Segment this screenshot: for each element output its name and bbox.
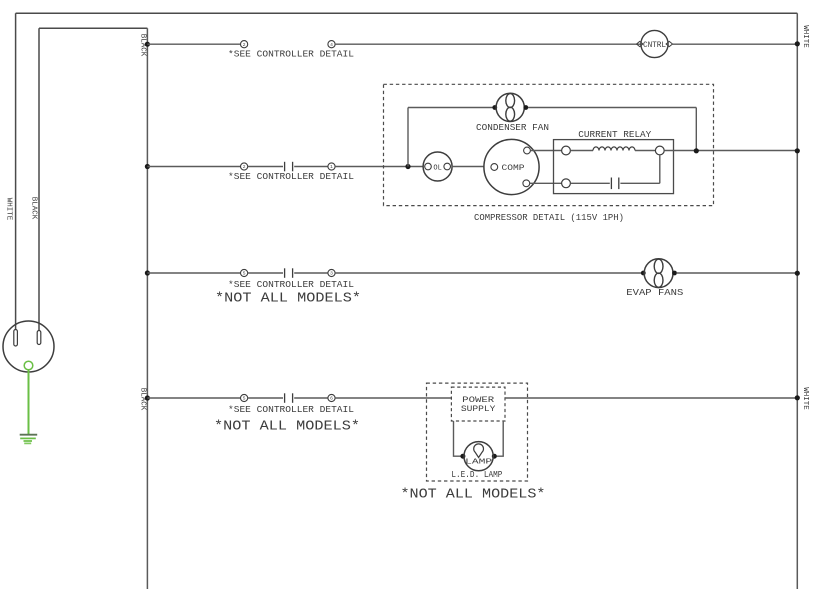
svg-text:CNTRL: CNTRL: [643, 42, 666, 50]
wire COMP S to relay: [530, 150, 561, 152]
terminal circle row2 left: [241, 163, 248, 170]
node evap fan left terminal: [641, 271, 646, 276]
wire row4 a: [147, 397, 240, 399]
relay terminal top-left: [562, 146, 571, 155]
power supply dashed box: [451, 387, 505, 421]
svg-text:CONDENSER FAN: CONDENSER FAN: [476, 123, 549, 133]
terminal circle 4 row1: [328, 41, 335, 48]
led section outer dashed box: [427, 383, 528, 481]
terminal circle row3 right: [328, 269, 335, 276]
wire lamp loop right: [493, 421, 503, 456]
wire row4 d: [335, 397, 451, 399]
svg-text:WHITE: WHITE: [801, 25, 809, 48]
plug P1 body: [3, 321, 54, 372]
plug ground pin circle: [24, 361, 33, 370]
wire row4 c: [294, 397, 328, 399]
svg-text:5: 5: [243, 396, 246, 402]
wire row2 b: [248, 166, 283, 168]
node row1 left bus junction: [145, 42, 150, 47]
terminal circle row4 left: [241, 394, 248, 401]
inductor relay coil: [593, 147, 635, 151]
wire relay out to bus: [664, 150, 797, 152]
wire row3 a: [147, 272, 240, 274]
node row3 right bus junction: [795, 271, 800, 276]
svg-text:COMPRESSOR DETAIL (115V 1PH): COMPRESSOR DETAIL (115V 1PH): [474, 213, 624, 223]
wire white left vertical (plug neutral up): [15, 13, 17, 329]
motor evap fans: [644, 259, 673, 288]
svg-text:*SEE CONTROLLER DETAIL: *SEE CONTROLLER DETAIL: [228, 280, 354, 290]
ground wire green: [28, 370, 30, 434]
wire condenser branch vertical: [407, 108, 409, 167]
node lamp right terminal: [492, 454, 497, 459]
wire relay d: [620, 182, 659, 184]
wire black top horizontal: [39, 27, 147, 29]
node condenser/relay junction: [694, 148, 699, 153]
wire row1 a: [147, 43, 240, 45]
wire row3 d: [335, 272, 641, 274]
wire relay e vertical: [659, 155, 661, 183]
wire row3 b: [248, 272, 283, 274]
svg-text:*NOT ALL MODELS*: *NOT ALL MODELS*: [214, 420, 360, 435]
node junction condenser branch: [405, 164, 410, 169]
relay terminal bottom-left: [562, 179, 571, 188]
wire row3 c: [294, 272, 328, 274]
svg-text:*SEE CONTROLLER DETAIL: *SEE CONTROLLER DETAIL: [228, 50, 354, 60]
wire relay c: [570, 182, 609, 184]
relay terminal top-right: [655, 146, 664, 155]
wire row2 c: [294, 166, 328, 168]
current relay box: [554, 140, 674, 194]
bus white right vertical: [796, 13, 798, 589]
wire COMP R to relay: [530, 182, 562, 184]
node evap fan right terminal: [672, 271, 677, 276]
svg-text:1: 1: [330, 164, 333, 170]
svg-text:*NOT ALL MODELS*: *NOT ALL MODELS*: [215, 292, 361, 307]
terminal circle 2 row1: [241, 41, 248, 48]
svg-text:*NOT ALL MODELS*: *NOT ALL MODELS*: [401, 488, 546, 503]
terminal circle row3 left: [241, 269, 248, 276]
lamp LED: [464, 442, 493, 471]
compressor COMP: [484, 139, 539, 194]
wire row1 c: [673, 43, 798, 45]
svg-text:BLACK: BLACK: [30, 197, 38, 220]
wire OL to COMP: [452, 166, 484, 168]
node lamp left terminal: [460, 454, 465, 459]
svg-text:WHITE: WHITE: [801, 387, 809, 410]
svg-text:4: 4: [330, 42, 333, 48]
contact row4: [285, 393, 293, 403]
controller CNTRL: [637, 30, 673, 57]
node row4 left bus junction: [145, 395, 150, 400]
node condenser fan right terminal: [523, 105, 528, 110]
wire lamp loop left: [454, 421, 465, 456]
svg-text:LAMP: LAMP: [465, 459, 493, 467]
svg-text:2: 2: [243, 42, 246, 48]
wire condenser top left: [408, 107, 494, 109]
bus black left vertical: [146, 28, 148, 589]
svg-text:6: 6: [330, 396, 333, 402]
node row1 right bus junction: [795, 41, 800, 46]
wire row3 e: [677, 272, 797, 274]
compressor detail dashed box: [384, 84, 714, 205]
svg-text:5: 5: [243, 271, 246, 277]
node row3 left bus junction: [145, 270, 150, 275]
svg-text:*SEE CONTROLLER DETAIL: *SEE CONTROLLER DETAIL: [228, 172, 354, 182]
terminal circle row2 right: [328, 163, 335, 170]
node row2 right bus junction: [795, 148, 800, 153]
ground symbol: [20, 435, 38, 444]
svg-text:SUPPLY: SUPPLY: [461, 405, 496, 414]
node condenser fan left terminal: [492, 105, 497, 110]
wire white top horizontal: [16, 12, 798, 14]
plug hot prong: [37, 331, 41, 345]
wire condenser branch right vertical: [695, 108, 697, 151]
svg-text:OL: OL: [433, 164, 441, 172]
svg-text:EVAP FANS: EVAP FANS: [626, 288, 683, 298]
capacitor relay: [611, 178, 618, 190]
svg-text:*SEE CONTROLLER DETAIL: *SEE CONTROLLER DETAIL: [228, 405, 354, 415]
wire relay b: [635, 150, 655, 152]
node row4 right bus junction: [795, 395, 800, 400]
wire row2 d into compressor box: [335, 166, 423, 168]
plug neutral prong: [14, 330, 18, 347]
wire row2 a: [147, 166, 240, 168]
wire row4 b: [248, 397, 283, 399]
wire black vertical from plug: [38, 28, 40, 330]
contact row3: [285, 268, 293, 278]
svg-text:3: 3: [330, 271, 333, 277]
svg-text:POWER: POWER: [462, 396, 494, 405]
node row2 left bus junction: [145, 164, 150, 169]
overload OL: [423, 152, 452, 181]
wire relay a: [570, 150, 593, 152]
label power supply: [461, 396, 496, 414]
svg-text:CURRENT RELAY: CURRENT RELAY: [578, 130, 652, 140]
contact row2: [285, 162, 293, 172]
motor condenser fan: [496, 93, 524, 121]
svg-text:WHITE: WHITE: [5, 198, 13, 221]
wire row1 b: [335, 43, 641, 45]
terminal circle row4 right: [328, 394, 335, 401]
svg-text:L.E.D. LAMP: L.E.D. LAMP: [451, 470, 502, 480]
wire condenser top right: [528, 107, 696, 109]
svg-text:2: 2: [243, 164, 246, 170]
svg-text:COMP: COMP: [502, 164, 525, 173]
wire row4 e out of power supply: [505, 397, 797, 399]
